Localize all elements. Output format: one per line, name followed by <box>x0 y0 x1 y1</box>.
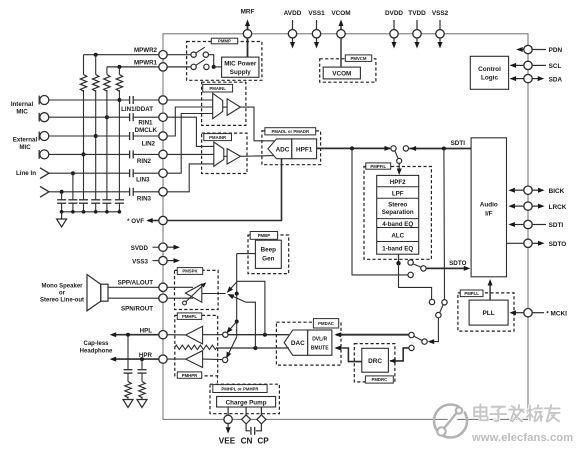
pin CN <box>242 415 251 424</box>
switch SW2 MPWR1 <box>191 64 196 69</box>
svg-text:VSS2: VSS2 <box>432 10 449 17</box>
input mux R <box>214 142 224 166</box>
svg-text:VSS1: VSS1 <box>308 10 325 17</box>
wire VCOM stem <box>340 23 342 67</box>
mic jack connector <box>38 96 40 105</box>
pin LIN1/DDAT <box>159 96 167 104</box>
wire PGA L to ADC <box>240 107 274 141</box>
pin AVDD <box>292 20 294 45</box>
wire mixer bus <box>236 254 238 337</box>
charge pump dashed box <box>210 384 279 414</box>
svg-text:PMDAC: PMDAC <box>318 321 334 326</box>
ground HPR <box>137 400 147 408</box>
switch DRC tap contact <box>409 345 414 350</box>
wire RIN2 input line <box>49 153 130 155</box>
pin MRF <box>243 30 251 38</box>
wire PLL to Audio IF <box>489 282 491 300</box>
svg-text:DVDD: DVDD <box>385 10 403 17</box>
junction bus hp <box>235 320 239 324</box>
svg-text:VCOM: VCOM <box>331 10 350 17</box>
label box PMADL or PMADR <box>265 128 316 135</box>
svg-text:Headphone: Headphone <box>80 348 113 354</box>
svg-text:DRC: DRC <box>368 358 382 365</box>
speaker symbol <box>101 284 108 301</box>
wire HPR driver to mix contact <box>203 358 223 361</box>
label box PMPLL <box>460 290 483 297</box>
DVOL BMUTE box <box>308 330 332 355</box>
svg-text:Cap-less: Cap-less <box>83 341 109 347</box>
wire R1 to RIN2 line <box>83 90 85 200</box>
wire OVF out <box>148 220 159 222</box>
svg-text:4-band EQ: 4-band EQ <box>382 221 413 228</box>
wire junction to supply box <box>214 66 222 68</box>
filter dashed box <box>364 167 431 260</box>
wire MPWR2 to switch <box>167 54 191 56</box>
svg-text:HPF1: HPF1 <box>296 146 313 153</box>
op-amp HPR driver <box>186 351 203 368</box>
mic jack connector <box>38 150 40 159</box>
pin SPP/ALOUT <box>159 283 167 291</box>
wire SW1 to junction <box>209 55 214 67</box>
op-amp PGA L <box>227 99 240 116</box>
wire HPL pin to driver <box>167 334 186 336</box>
ground HPL <box>123 400 133 408</box>
pin VSS3 <box>153 260 159 262</box>
resistor R1 <box>83 55 85 75</box>
svg-text:www.elecfans.com: www.elecfans.com <box>471 432 573 444</box>
watermark logo <box>434 405 467 438</box>
Charge Pump box <box>217 397 276 408</box>
mic jack connector <box>38 113 40 122</box>
switch mute arm <box>414 336 422 340</box>
switch filter-in contact B <box>403 146 408 151</box>
junction filter out <box>396 261 400 265</box>
wire LIN1 to mux L <box>167 99 213 101</box>
Audio IF box <box>471 138 506 277</box>
junction MPWR1-R4 <box>117 65 121 69</box>
pin DVDD <box>393 20 395 45</box>
label box PMBP <box>250 232 277 240</box>
svg-text:PMVCM: PMVCM <box>351 56 367 61</box>
switch DAC common <box>436 312 441 317</box>
svg-text:MIC Power: MIC Power <box>224 61 257 68</box>
pin SDTO <box>507 242 524 244</box>
pin HPL <box>159 331 167 339</box>
svg-text:or: or <box>59 291 66 297</box>
wire RIN2 to mux R <box>167 153 214 155</box>
svg-text:VSS3: VSS3 <box>132 258 148 265</box>
wire R2 to LIN2 line <box>95 90 97 200</box>
svg-text:PMAINL: PMAINL <box>209 86 226 91</box>
svg-text:RIN3: RIN3 <box>137 195 152 202</box>
wire RIN3 to mux R <box>167 164 214 192</box>
svg-text:Stereo Line-out: Stereo Line-out <box>40 298 84 304</box>
VCOM box <box>323 67 360 79</box>
svg-text:1-band EQ: 1-band EQ <box>382 245 413 252</box>
wire RIN1 input line <box>49 116 130 118</box>
svg-text:PLL: PLL <box>482 310 494 317</box>
svg-text:LRCK: LRCK <box>549 204 567 211</box>
resistor R4 <box>118 67 120 75</box>
switch DAC contact SDTI <box>442 300 447 305</box>
junction R3-RIN1 <box>105 115 109 119</box>
junction DAC R riser <box>253 346 257 350</box>
svg-text:HPF2: HPF2 <box>390 179 406 186</box>
junction bus speaker <box>235 292 239 296</box>
label box PMVCM <box>345 55 371 62</box>
svg-text:CP: CP <box>257 437 269 446</box>
svg-text:SDTO: SDTO <box>449 260 466 267</box>
label box PMAINR <box>204 134 232 141</box>
svg-text:SDTI: SDTI <box>549 222 564 229</box>
capacitor RIN3 coupling <box>129 188 131 196</box>
switch filter-in common <box>397 158 402 163</box>
pin PDN <box>518 49 524 51</box>
svg-text:MPWR2: MPWR2 <box>134 47 158 54</box>
svg-text:MRF: MRF <box>241 9 255 16</box>
pin MPWR2 <box>159 51 167 59</box>
junction rail <box>118 210 122 214</box>
wire CP stem <box>260 407 262 415</box>
label box PMMP <box>211 38 237 44</box>
wire DAC selector to mute switch <box>429 318 438 342</box>
PGA L dashed box <box>202 82 246 125</box>
svg-text:LPF: LPF <box>392 190 404 197</box>
watermark chinese characters <box>474 405 559 422</box>
capacitor HPR load <box>141 359 143 369</box>
switch SDTO contact raw <box>408 272 413 277</box>
wire DAC L to speaker mixer <box>228 281 265 334</box>
wire LIN3 input line <box>49 172 130 174</box>
svg-text:BMUTE: BMUTE <box>311 346 329 352</box>
wire SDTO to Audio IF <box>426 267 468 269</box>
svg-text:MIC: MIC <box>16 109 28 116</box>
label box PMHPL <box>177 313 201 320</box>
MIC Power Supply box <box>222 57 259 77</box>
wire LIN2 input line <box>49 135 130 137</box>
wire selector to filter <box>398 163 400 172</box>
MIC Power block dashed box <box>187 42 262 81</box>
wire HP to charge pump link <box>217 376 219 384</box>
svg-text:SDTO: SDTO <box>549 241 567 248</box>
wire LIN3 to mux L <box>167 114 213 174</box>
wire DAC R output <box>217 347 289 349</box>
svg-text:Mono Speaker: Mono Speaker <box>41 284 83 290</box>
switch SDTO contact filter <box>408 260 413 265</box>
pin MPWR1 <box>159 63 167 71</box>
wire VEE stem <box>227 407 229 415</box>
junction rail <box>82 210 86 214</box>
junction R2-LIN2 <box>94 134 98 138</box>
svg-text:Supply: Supply <box>230 69 251 76</box>
svg-text:DVL/R: DVL/R <box>312 337 327 343</box>
svg-text:Line In: Line In <box>16 170 36 177</box>
svg-text:DAC: DAC <box>291 340 305 347</box>
junction switches <box>212 65 216 69</box>
pin RIN2 <box>159 150 167 158</box>
input mux L <box>213 93 223 118</box>
ADC block dashed box <box>262 131 321 165</box>
wire HPF1 output <box>317 147 390 149</box>
pin SPN/ROUT <box>159 294 167 302</box>
wire bus to HPR mixer <box>227 337 237 358</box>
wire RIN3 input line <box>49 191 130 193</box>
filter chain box <box>377 175 419 254</box>
wire LIN2 to mux L <box>167 107 213 136</box>
junction rail <box>60 210 64 214</box>
wire SPP external <box>108 286 159 288</box>
DAC dashed box <box>276 322 341 365</box>
capacitor LIN1 coupling <box>129 96 131 104</box>
svg-text:PMADL or PMADR: PMADL or PMADR <box>271 129 310 134</box>
capacitor RIN2 coupling <box>129 150 131 158</box>
svg-text:HPL: HPL <box>140 327 153 334</box>
wire SPN external <box>108 297 159 299</box>
wire MPWR2 rail <box>84 54 159 56</box>
wire PGA R to ADC <box>240 155 274 158</box>
svg-text:SPP/ALOUT: SPP/ALOUT <box>118 279 154 286</box>
capacitor RIN1 coupling <box>129 113 131 121</box>
svg-text:DMCLK: DMCLK <box>135 127 158 134</box>
ground symbol <box>61 212 63 219</box>
switch DAC arm <box>440 305 444 313</box>
Control Logic box <box>470 56 508 89</box>
wire DRC output to DVOL <box>336 348 362 362</box>
wire HPR out <box>112 358 159 360</box>
wire Beep output <box>237 253 256 255</box>
pin BICK <box>510 189 524 191</box>
wire LIN3 decouple <box>72 173 74 200</box>
switch HPR mix contact <box>222 357 227 362</box>
switch filter-in contact A <box>391 146 396 151</box>
junction DAC L riser <box>263 333 267 337</box>
ground rail <box>62 211 120 213</box>
wire HPL driver to mix contact <box>203 334 223 336</box>
resistor R3 <box>106 67 108 75</box>
chip boundary <box>163 34 528 420</box>
switch mute contact in <box>422 339 427 344</box>
wire CN stem <box>245 407 247 415</box>
PLL dashed box <box>458 293 514 331</box>
wire MPWR1 to switch <box>167 66 191 68</box>
junction R4-LIN1 <box>117 98 121 102</box>
pin RIN3 <box>159 188 167 196</box>
ADC converter <box>268 139 292 159</box>
svg-text:AVDD: AVDD <box>284 10 302 17</box>
svg-text:PMHPR: PMHPR <box>182 373 198 378</box>
switch HPL mix contact <box>223 332 228 337</box>
svg-text:LIN3: LIN3 <box>136 177 150 184</box>
svg-text:SDTI: SDTI <box>451 140 466 147</box>
wire RIN3 decouple <box>61 192 63 200</box>
pin TVDD <box>416 20 418 45</box>
speaker volume arrow <box>185 284 205 303</box>
junction HPR RC <box>140 357 144 361</box>
Beep block dashed box <box>248 235 289 274</box>
svg-text:PMAINR: PMAINR <box>209 135 227 140</box>
pin LRCK <box>510 205 524 207</box>
pin VEE <box>224 415 232 423</box>
svg-text:SDA: SDA <box>549 76 563 83</box>
pin SDTI <box>510 224 524 226</box>
svg-text:Beep: Beep <box>261 247 277 254</box>
svg-text:CN: CN <box>241 437 253 446</box>
pin OVF <box>159 216 167 224</box>
svg-text:SCL: SCL <box>549 63 562 70</box>
svg-text:PMPFIL: PMPFIL <box>370 164 386 169</box>
capacitor flying <box>246 424 250 431</box>
wire bus to HPL mixer <box>227 322 237 333</box>
svg-text:PDN: PDN <box>549 47 563 54</box>
label box PMHPR <box>177 372 201 378</box>
svg-text:TVDD: TVDD <box>408 10 426 17</box>
label box PMSPK <box>177 268 202 275</box>
junction R1-RIN2 <box>82 152 86 156</box>
op-amp PGA R <box>227 149 240 165</box>
svg-text:ADC: ADC <box>276 146 290 153</box>
svg-text:* MCKI: * MCKI <box>546 310 567 317</box>
switch SDTO arm <box>413 264 421 267</box>
label box PMDAC <box>313 319 338 328</box>
svg-text:ALC: ALC <box>391 232 404 239</box>
HPF1 box <box>292 139 317 159</box>
svg-text:MPWR1: MPWR1 <box>134 59 158 66</box>
svg-text:Stereo: Stereo <box>388 201 407 208</box>
pin VSS2 <box>439 20 441 45</box>
capacitor C4 to ground <box>91 199 100 201</box>
wire R4 to LIN1 line <box>118 90 120 200</box>
wire SDTI down <box>443 149 446 300</box>
label box PMAINL <box>203 84 233 92</box>
wire filter output stem <box>398 254 400 263</box>
wire HPL out <box>112 334 159 336</box>
capacitor C6 to ground <box>115 199 124 201</box>
capacitor HPL load <box>127 335 129 370</box>
svg-text:Logic: Logic <box>481 74 498 81</box>
VCOM block dashed box <box>320 59 376 82</box>
wire ADC overflow to OVF pin <box>167 159 281 221</box>
pin VCOM <box>337 30 345 38</box>
resistor HPL load <box>127 373 129 381</box>
svg-text:BICK: BICK <box>549 188 565 195</box>
wire R3 to RIN1 line <box>106 90 108 200</box>
wire SDTI feed <box>409 148 471 150</box>
svg-text:* OVF: * OVF <box>127 218 144 225</box>
pin SDA <box>511 78 524 80</box>
svg-text:I/F: I/F <box>485 211 493 218</box>
switch DAC contact filter <box>429 299 434 304</box>
HP amp dashed box <box>175 315 218 376</box>
DAC converter <box>284 330 307 355</box>
op-amp speaker driver <box>185 284 201 302</box>
wire HPR pin to driver <box>167 358 186 360</box>
line-in connector <box>40 168 49 179</box>
Beep Gen box <box>255 240 281 268</box>
svg-text:PMPLL: PMPLL <box>464 291 479 296</box>
PLL box <box>469 300 508 325</box>
wire MRF stem <box>247 23 249 57</box>
wire speaker amp input <box>202 293 226 295</box>
wire ADC raw tap <box>352 148 408 275</box>
pin CP <box>257 415 266 424</box>
pin LIN2/DMCLK <box>159 132 167 140</box>
svg-text:PMDRC: PMDRC <box>371 377 387 382</box>
switch SW1 MPWR2 <box>191 52 196 57</box>
pin HPR <box>159 355 167 363</box>
PGA R dashed box <box>202 133 247 173</box>
pin SVDD <box>153 246 159 248</box>
pin MCKI <box>511 312 524 314</box>
svg-text:Gen: Gen <box>262 255 274 262</box>
wire filter-out to DAC selector <box>399 263 432 299</box>
wire LIN1 input line <box>49 99 130 101</box>
switch SDTO common <box>421 266 426 271</box>
speaker amp dashed box <box>175 270 219 309</box>
capacitor LIN2 coupling <box>129 132 131 140</box>
line-in connector <box>40 186 49 197</box>
junction LIN3-C <box>71 171 75 175</box>
pin LIN3 <box>159 169 167 177</box>
svg-text:PMHPL or PMHPR: PMHPL or PMHPR <box>221 386 259 391</box>
capacitor C1 to ground <box>57 199 66 201</box>
svg-text:PMBP: PMBP <box>258 233 271 238</box>
svg-text:RIN1: RIN1 <box>138 119 153 126</box>
svg-text:PMHPL: PMHPL <box>182 314 197 319</box>
wire DAC digital input <box>336 334 409 336</box>
wire DAC L output <box>228 334 289 336</box>
op-amp HPL driver <box>186 326 203 344</box>
junction SDTI branch <box>442 147 446 151</box>
junction MPWR2-R2 <box>94 53 98 57</box>
mic jack connector <box>38 132 40 141</box>
svg-text:SVDD: SVDD <box>131 245 149 252</box>
wire SPP to driver <box>167 286 193 288</box>
svg-text:LIN2: LIN2 <box>142 140 156 147</box>
svg-text:VEE: VEE <box>219 437 236 446</box>
wire MPWR1 rail <box>107 66 159 68</box>
svg-text:SPN/ROUT: SPN/ROUT <box>121 306 153 313</box>
junction HPF1 out <box>350 146 354 150</box>
capacitor C2 to ground <box>68 199 77 201</box>
svg-text:MIC: MIC <box>19 144 31 151</box>
svg-text:PMMP: PMMP <box>218 39 231 44</box>
label box PMPFIL <box>366 163 391 169</box>
svg-text:PMSPK: PMSPK <box>182 269 198 274</box>
svg-text:Charge Pump: Charge Pump <box>226 399 267 406</box>
resistor R2 <box>95 55 97 75</box>
svg-text:Audio: Audio <box>480 202 498 209</box>
wire SPN to driver <box>167 297 193 299</box>
svg-text:RIN2: RIN2 <box>137 158 152 165</box>
switch filter-in arm <box>395 151 399 159</box>
wire RIN1 to mux R <box>167 117 214 146</box>
junction HPL RC <box>126 333 130 337</box>
capacitor C3 to ground <box>79 199 88 201</box>
pin SCL <box>511 64 524 66</box>
DRC box <box>362 348 389 372</box>
svg-text:Internal: Internal <box>11 101 34 108</box>
junction rail <box>71 210 75 214</box>
DRC dashed box <box>354 344 395 382</box>
label box PMHPL or PMHPR <box>213 385 267 393</box>
junction RIN3-C <box>60 190 64 194</box>
wire DRC input <box>390 348 409 361</box>
wire DAC R to speaker mixer <box>229 295 255 348</box>
svg-text:Control: Control <box>478 66 501 73</box>
pin VSS1 <box>316 20 318 45</box>
resistor HPR load <box>141 373 143 381</box>
svg-text:External: External <box>13 137 38 144</box>
